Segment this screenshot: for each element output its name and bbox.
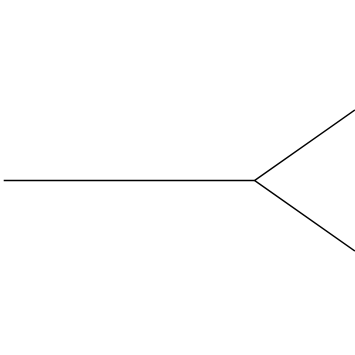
wire: upper diagonal segment xyxy=(255,110,355,181)
wire: lower diagonal segment xyxy=(255,181,355,252)
node: junction vertex xyxy=(254,180,255,181)
wire: horizontal segment xyxy=(4,180,255,182)
